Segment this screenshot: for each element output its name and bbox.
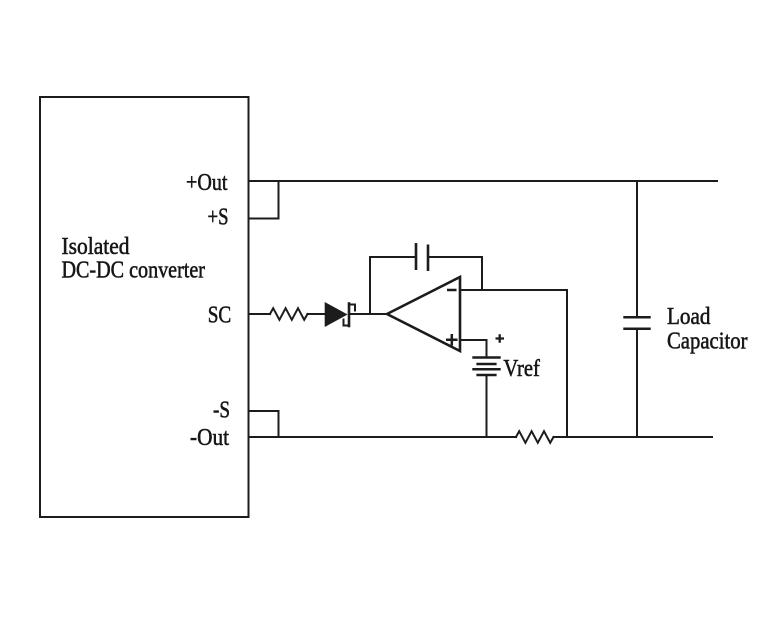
- wire: [308, 313, 326, 315]
- svg-text:SC: SC: [208, 303, 232, 329]
- wire -Out: [249, 436, 517, 438]
- svg-text:Isolated: Isolated: [62, 234, 130, 260]
- wire load branch top: [636, 181, 638, 316]
- wire +S stub: [249, 181, 279, 219]
- battery plus label: [496, 334, 505, 343]
- wire battery to -Out: [486, 376, 488, 437]
- capacitor C2 (load): [623, 316, 650, 319]
- node A (feedback junction): [369, 257, 371, 314]
- wire plus input: [460, 340, 487, 357]
- op-amp minus input: [447, 289, 457, 292]
- wire SC: [249, 313, 271, 315]
- op-amp U1: [387, 277, 460, 351]
- svg-text:DC-DC converter: DC-DC converter: [62, 258, 206, 284]
- capacitor C1 (feedback): [415, 243, 418, 270]
- diode D1 (Schottky): [325, 302, 348, 327]
- wire +Out: [249, 180, 718, 182]
- wire: [350, 313, 387, 315]
- DC-DC converter box: [40, 97, 249, 517]
- resistor R2: [516, 431, 554, 443]
- battery Vref: [472, 356, 500, 359]
- svg-text:-Out: -Out: [190, 425, 229, 451]
- resistor R1: [270, 308, 308, 320]
- wire load branch bottom: [636, 330, 638, 437]
- wire: [370, 256, 416, 258]
- svg-text:Capacitor: Capacitor: [667, 328, 748, 354]
- wire minus input to feedback net: [460, 289, 567, 291]
- op-amp plus input: [446, 334, 458, 346]
- svg-text:+S: +S: [208, 205, 229, 231]
- svg-text:+Out: +Out: [186, 170, 228, 196]
- wire: [566, 290, 568, 437]
- wire: [554, 436, 713, 438]
- wire -S stub: [249, 411, 279, 437]
- svg-text:Vref: Vref: [503, 356, 540, 382]
- svg-text:-S: -S: [213, 398, 230, 424]
- svg-text:Load: Load: [667, 304, 711, 330]
- wire: [428, 257, 482, 290]
